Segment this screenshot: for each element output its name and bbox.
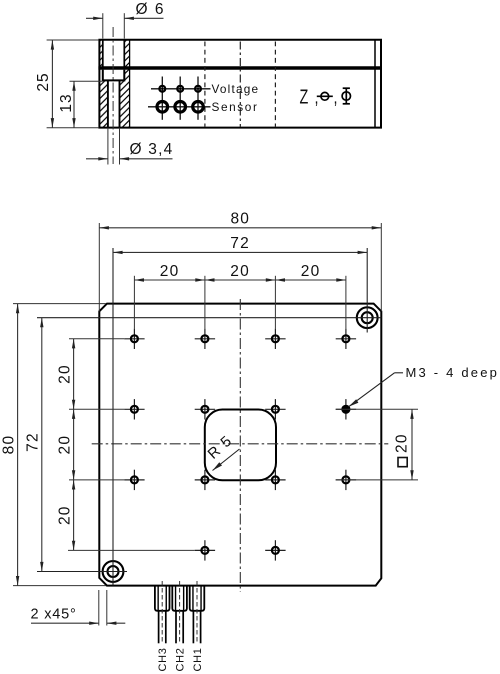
svg-text:20: 20 (56, 435, 73, 455)
hole centerline (112, 27, 114, 164)
svg-text:20: 20 (230, 263, 250, 280)
dimension 20 chain left line and arrows (73, 339, 75, 551)
svg-text:Z ,: Z , (300, 85, 320, 108)
dimension 20 chain top extension lines (133, 276, 135, 329)
svg-text:2 x45°: 2 x45° (31, 607, 77, 623)
dimension 13 line and arrows (73, 81, 75, 128)
dimension 80 top line and arrows (99, 227, 381, 229)
callout M3 leader line and arrow (349, 373, 395, 407)
voltage pin 2 (177, 86, 183, 92)
svg-text:M3 - 4 deep: M3 - 4 deep (406, 365, 500, 380)
hole B4 M3 filled (callout target) (336, 399, 356, 419)
section boundary line (129, 40, 131, 128)
svg-text:20: 20 (56, 364, 73, 384)
voltage pin 1 (159, 86, 165, 92)
counterbore hole right edge (123, 40, 125, 70)
svg-text:CH2: CH2 (175, 647, 187, 671)
dimension 80 left extension lines (13, 303, 106, 305)
cable gland CH2 (172, 586, 187, 611)
side view part separation thick line (98, 66, 382, 69)
hole C4 M3 (336, 470, 356, 490)
cable CH3 (159, 611, 166, 644)
dimension 2x45 lines and arrows (31, 622, 99, 624)
plate vertical centerline (239, 299, 241, 592)
hole C3 M3 at cutout corner (265, 470, 285, 490)
hole C1 M3 (124, 470, 144, 490)
voltage pin leader line (151, 88, 211, 90)
svg-text:72: 72 (230, 235, 250, 252)
svg-text:Ø 3,4: Ø 3,4 (130, 141, 174, 158)
dimension 80 left line and arrows (17, 304, 19, 586)
dimension 13 extension line (70, 80, 103, 82)
counterbore bottom-left horizontal crosshair and 72 extension (37, 571, 127, 573)
hatch upper-left wall (99, 40, 102, 67)
plan view plate outline with chamfered corners (99, 304, 381, 586)
hatch lower-right wall (120, 80, 130, 127)
voltage pin 3 (195, 86, 201, 92)
cable CH1 (193, 611, 200, 644)
dimension D6 extension lines (102, 13, 104, 38)
dimension 25 line and arrows (51, 40, 53, 128)
svg-text:CH1: CH1 (192, 647, 204, 671)
dimension 25 extension lines (47, 39, 99, 41)
svg-text:20: 20 (56, 505, 73, 525)
through hole right edge (119, 80, 121, 127)
svg-text:20: 20 (160, 263, 180, 280)
svg-text:80: 80 (230, 211, 250, 228)
hole B1 M3 (124, 399, 144, 419)
cable CH2 centerline (179, 581, 181, 642)
dimension square20 label with square symbol (394, 433, 411, 466)
svg-text:20: 20 (394, 433, 411, 453)
cable gland CH3 (155, 586, 170, 611)
svg-text:80: 80 (1, 435, 18, 455)
svg-text:Ø 6: Ø 6 (136, 1, 165, 18)
dimension 80 top extension lines (98, 223, 100, 311)
hole A4 M3 (336, 329, 356, 349)
dimension 72 left line and arrows (41, 318, 43, 572)
svg-text:20: 20 (301, 263, 321, 280)
svg-text:,: , (334, 85, 339, 108)
sensor pin 2 (175, 102, 186, 113)
through hole extension lines below body (107, 128, 109, 165)
dimension D6 lines and arrows (86, 17, 103, 19)
counterbore bottom-left vertical crosshair and 72 extension (112, 248, 114, 586)
cable CH3 centerline (161, 581, 163, 642)
dimension square20 extension lines (336, 408, 418, 410)
hole A2 M3 (195, 329, 215, 349)
axis symbol phi (342, 88, 350, 104)
dimension 2x45 extension lines (98, 590, 100, 626)
cable gland CH1 (190, 586, 205, 611)
counterbore mounting hole top-right (357, 307, 378, 328)
counterbore top-right horizontal crosshair and 72 extension (37, 317, 381, 319)
hole B2 M3 at cutout corner (195, 399, 215, 419)
hidden line cutout left (204, 42, 206, 127)
sensor pin 3 (193, 102, 204, 113)
svg-text:25: 25 (35, 72, 52, 91)
cable CH2 (176, 611, 183, 644)
callout R5 leader line and arrow (213, 449, 240, 471)
counterbore notch box (103, 70, 125, 81)
center square cutout R5 (205, 410, 276, 481)
hidden line cutout right (274, 42, 276, 127)
hole B3 M3 at cutout corner (265, 399, 285, 419)
hole D3 M3 (265, 540, 285, 560)
cable CH1 centerline (196, 581, 198, 642)
svg-text:72: 72 (24, 432, 41, 452)
dimension 20 chain top line and arrows (134, 279, 346, 281)
through hole left edge (107, 80, 109, 127)
svg-text:Voltage: Voltage (212, 82, 260, 96)
side view right chamfer line (374, 40, 376, 128)
counterbore mounting hole bottom-left (103, 561, 124, 582)
plate horizontal centerline (92, 443, 389, 445)
counterbore hole left edge (102, 40, 104, 70)
sensor pin leader line (148, 106, 211, 108)
hole C2 M3 at cutout corner (195, 470, 215, 490)
dimension 20 chain left extension lines (69, 338, 124, 340)
svg-text:Sensor: Sensor (212, 100, 259, 114)
svg-text:13: 13 (58, 93, 75, 112)
body centerline (239, 42, 241, 127)
pin column 2 centerline (179, 77, 181, 120)
hole A3 M3 (265, 329, 285, 349)
hole D2 M3 (195, 540, 215, 560)
hatch upper-right wall (124, 40, 129, 81)
pin column 1 centerline (161, 77, 163, 120)
pin column 3 centerline (197, 77, 199, 120)
svg-text:CH3: CH3 (157, 647, 169, 671)
sensor pin 1 (157, 102, 168, 113)
side view body outline (99, 40, 381, 128)
dimension square20 line and arrows (411, 409, 413, 480)
counterbore top-right vertical extension line (366, 248, 368, 333)
axis symbol theta (317, 92, 333, 100)
dimension D3.4 lines and arrows (86, 158, 108, 160)
hole A1 M3 (124, 329, 144, 349)
dimension 72 top line and arrows (113, 251, 367, 253)
hatch lower-left wall (99, 80, 108, 127)
